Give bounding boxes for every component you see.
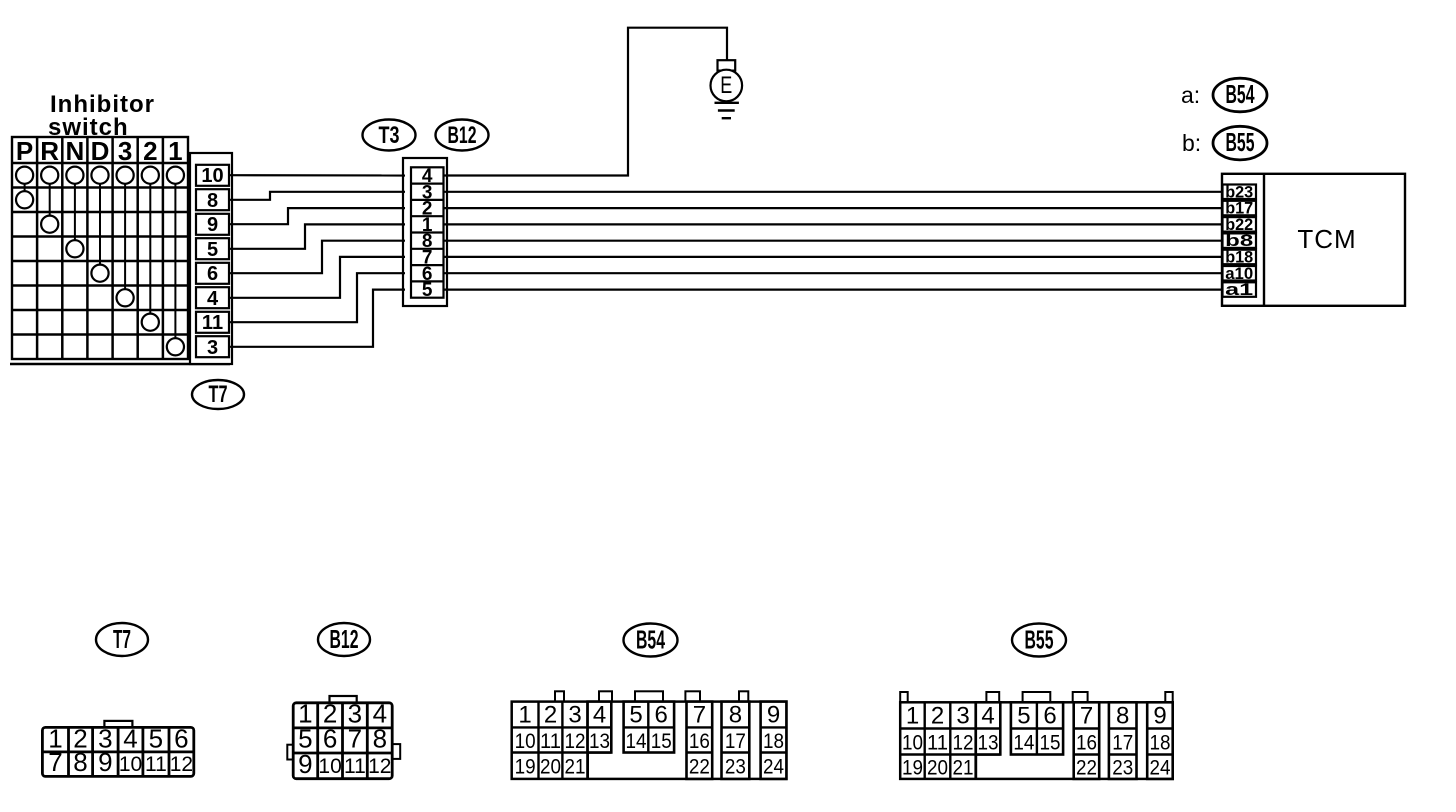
svg-text:1: 1 [518, 702, 531, 729]
svg-text:15: 15 [651, 730, 672, 753]
svg-text:3: 3 [568, 702, 581, 729]
svg-text:T7: T7 [209, 381, 228, 408]
svg-text:4: 4 [981, 702, 994, 729]
svg-text:11: 11 [927, 732, 948, 755]
svg-text:18: 18 [1150, 732, 1171, 755]
svg-text:9: 9 [98, 747, 112, 777]
svg-text:10: 10 [515, 730, 536, 753]
svg-text:17: 17 [725, 730, 746, 753]
svg-text:1: 1 [906, 702, 919, 729]
svg-text:5: 5 [149, 724, 163, 754]
svg-text:19: 19 [902, 757, 923, 780]
svg-text:7: 7 [693, 702, 706, 729]
svg-text:12: 12 [170, 753, 193, 776]
svg-text:N: N [66, 136, 85, 166]
svg-text:3: 3 [207, 337, 218, 359]
svg-text:19: 19 [515, 756, 536, 779]
svg-text:2: 2 [143, 136, 157, 166]
svg-text:15: 15 [1040, 732, 1061, 755]
svg-text:8: 8 [729, 702, 742, 729]
svg-text:12: 12 [565, 730, 586, 753]
svg-text:B12: B12 [448, 122, 477, 149]
svg-text:20: 20 [927, 757, 948, 780]
svg-text:6: 6 [174, 724, 188, 754]
svg-text:R: R [40, 136, 59, 166]
svg-text:10: 10 [318, 755, 341, 778]
svg-text:9: 9 [298, 749, 312, 779]
svg-text:a1: a1 [1225, 280, 1253, 299]
svg-text:6: 6 [323, 724, 337, 754]
svg-text:10: 10 [201, 165, 223, 187]
svg-text:B12: B12 [330, 624, 359, 654]
svg-text:8: 8 [373, 724, 387, 754]
svg-text:4: 4 [207, 288, 219, 310]
svg-text:P: P [16, 136, 33, 166]
svg-text:2: 2 [931, 702, 944, 729]
svg-text:11: 11 [344, 755, 366, 778]
svg-text:11: 11 [145, 753, 167, 776]
svg-text:5: 5 [629, 702, 642, 729]
svg-text:7: 7 [48, 747, 62, 777]
svg-text:8: 8 [1116, 702, 1129, 729]
svg-text:B54: B54 [1226, 79, 1255, 109]
svg-text:7: 7 [1080, 702, 1093, 729]
svg-text:8: 8 [73, 747, 87, 777]
svg-text:E: E [720, 72, 732, 99]
svg-text:6: 6 [1043, 702, 1056, 729]
svg-text:13: 13 [978, 732, 999, 755]
svg-text:11: 11 [202, 312, 223, 334]
svg-text:5: 5 [422, 280, 433, 301]
svg-text:9: 9 [207, 214, 218, 236]
svg-text:16: 16 [689, 730, 710, 753]
svg-text:12: 12 [368, 755, 391, 778]
svg-text:6: 6 [655, 702, 668, 729]
svg-text:11: 11 [540, 730, 561, 753]
svg-text:3: 3 [956, 702, 969, 729]
svg-text:B54: B54 [636, 625, 665, 655]
svg-text:16: 16 [1076, 732, 1097, 755]
svg-text:T7: T7 [113, 624, 131, 654]
svg-text:5: 5 [207, 239, 218, 261]
svg-text:24: 24 [1150, 757, 1171, 780]
svg-text:12: 12 [953, 732, 974, 755]
svg-text:2: 2 [544, 702, 557, 729]
svg-text:21: 21 [565, 756, 586, 779]
svg-text:4: 4 [593, 702, 606, 729]
svg-text:B55: B55 [1226, 127, 1255, 157]
svg-text:21: 21 [953, 757, 974, 780]
svg-text:9: 9 [767, 702, 780, 729]
svg-text:7: 7 [348, 724, 362, 754]
svg-text:23: 23 [725, 756, 746, 779]
svg-text:14: 14 [1013, 732, 1034, 755]
svg-text:22: 22 [1076, 757, 1097, 780]
svg-text:B55: B55 [1025, 625, 1054, 655]
svg-text:10: 10 [902, 732, 923, 755]
svg-text:22: 22 [689, 756, 710, 779]
svg-text:a:: a: [1181, 82, 1200, 108]
svg-text:6: 6 [207, 263, 218, 285]
svg-text:13: 13 [589, 730, 610, 753]
svg-text:TCM: TCM [1297, 224, 1356, 254]
svg-text:1: 1 [168, 136, 182, 166]
svg-text:23: 23 [1112, 757, 1133, 780]
svg-text:20: 20 [540, 756, 561, 779]
svg-text:D: D [91, 136, 110, 166]
svg-text:9: 9 [1153, 702, 1166, 729]
svg-text:T3: T3 [379, 122, 400, 149]
svg-text:17: 17 [1112, 732, 1133, 755]
svg-text:b:: b: [1182, 130, 1201, 156]
svg-text:10: 10 [119, 753, 142, 776]
svg-text:5: 5 [1017, 702, 1030, 729]
svg-text:24: 24 [763, 756, 784, 779]
svg-text:14: 14 [626, 730, 647, 753]
svg-text:8: 8 [207, 190, 218, 212]
svg-text:3: 3 [118, 136, 132, 166]
svg-text:18: 18 [763, 730, 784, 753]
svg-text:4: 4 [123, 724, 137, 754]
